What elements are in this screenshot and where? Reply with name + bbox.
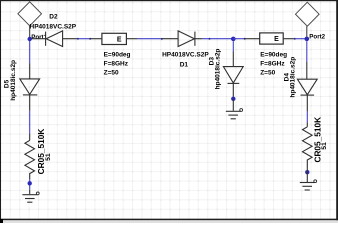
wire junction2 to E2 [233,38,259,40]
svg-text:51: 51 [321,142,328,150]
resistor R1 CR05_510K [25,140,35,179]
ground (right) [300,180,317,190]
diode D5 [20,79,40,111]
node wire vertex middle [231,97,235,101]
svg-text:hp4018ic.s2p: hp4018ic.s2p [215,49,222,90]
svg-text:CR05_510K: CR05_510K [312,117,322,163]
svg-text:HP4018VC.S2P: HP4018VC.S2P [30,24,77,31]
svg-text:Z=50: Z=50 [260,69,275,76]
wire junction1 to D2 [32,38,46,40]
phase shifter E2 [260,33,284,44]
svg-text:CR05_510K: CR05_510K [36,129,46,175]
wire D2 to E1 [77,38,102,40]
svg-text:hp4018ic.s2p: hp4018ic.s2p [290,57,297,98]
wire R2 to ground [306,168,308,182]
svg-text:F=8GHz: F=8GHz [104,60,129,67]
node wire vertex left [28,181,32,185]
svg-text:E: E [274,36,279,43]
wire junction1 down to D5 [29,41,31,79]
svg-text:E: E [117,36,122,43]
node junction 3 [305,37,310,42]
svg-text:51: 51 [45,153,52,161]
wire D4 to R2 [306,111,308,127]
resistor R2 CR05_510K [303,127,313,168]
svg-text:Port2: Port2 [309,34,325,41]
wire junction3 down to D4 [306,41,308,79]
svg-text:D2: D2 [49,14,58,21]
ground (left) [22,192,39,202]
wire R1 to ground [29,179,31,194]
port Port2 [296,2,320,37]
svg-text:HP4018VC.S2P: HP4018VC.S2P [162,52,209,59]
svg-text:D1: D1 [180,62,189,69]
svg-text:Z=50: Z=50 [104,69,119,76]
diode D3 [223,67,243,98]
wire E2 to junction 3 [283,38,307,40]
svg-text:hp4018ic.s2p: hp4018ic.s2p [10,60,17,101]
port Port1 [18,2,42,37]
wire D1 to junction 2 [202,38,233,40]
svg-text:F=8GHz: F=8GHz [260,60,285,67]
value labels E2: E=90deg F=8GHz Z=50 [260,52,287,77]
value labels E1: E=90deg F=8GHz Z=50 [104,52,131,77]
diode D4 [297,79,317,111]
diode D1 [178,31,202,47]
wire E1 to D1 [126,38,178,40]
svg-text:E=90deg: E=90deg [260,52,287,59]
node wire vertex right [305,170,309,174]
diode D2 [46,31,78,47]
ground (middle) [226,109,243,119]
svg-text:E=90deg: E=90deg [104,52,131,59]
node junction 1 [28,37,32,41]
wire D5 to R1 [29,111,31,141]
node junction 2 [231,37,236,42]
phase shifter E1 [102,33,127,44]
wire junction2 down to D3 [232,41,234,66]
wire D3 to ground [232,99,234,111]
